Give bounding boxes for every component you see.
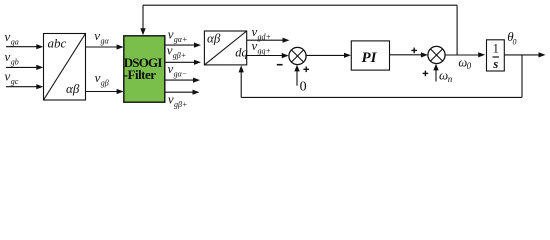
wire v_gd+ [247, 39, 283, 41]
svg-text:n: n [448, 74, 453, 84]
label minus at S1 [277, 64, 283, 66]
arrowhead v_gb [36, 65, 43, 70]
block integrator 1/s [487, 40, 505, 71]
wire input v_gc [6, 86, 38, 88]
wire v_gbeta [86, 91, 119, 93]
wire theta_0 output with feedback tap down [504, 54, 539, 56]
svg-text:s: s [492, 56, 498, 71]
svg-text:v: v [168, 92, 174, 107]
arrowhead omega_n input [433, 64, 438, 71]
svg-text:αβ: αβ [66, 81, 80, 96]
block U3 alpha-beta to dq transform [204, 31, 246, 65]
summing junction S2 [428, 46, 445, 63]
svg-text:gq+: gq+ [258, 47, 271, 56]
svg-text:ω: ω [439, 67, 448, 82]
svg-text:gc: gc [11, 77, 19, 86]
svg-text:v: v [168, 61, 174, 76]
svg-text:gα: gα [101, 37, 110, 46]
arrowhead theta_0 output [539, 52, 546, 57]
wire feedback into DSOGI top [142, 5, 144, 29]
svg-text:0: 0 [513, 37, 517, 46]
svg-text:PI: PI [362, 50, 378, 66]
svg-text:v: v [94, 28, 100, 43]
arrowhead zero input [294, 65, 299, 72]
svg-text:0: 0 [467, 61, 472, 71]
arrowhead v_gbeta [117, 89, 124, 94]
svg-text:v: v [95, 70, 101, 85]
wire DSOGI out3 [165, 79, 194, 81]
wire DSOGI out2 [165, 61, 195, 63]
arrowhead DSOGI out4 [193, 90, 200, 95]
svg-text:gd+: gd+ [258, 33, 271, 42]
block PI controller [351, 41, 389, 70]
block U1 abc to alpha-beta transform [44, 34, 86, 101]
svg-text:v: v [5, 49, 11, 64]
wire zero input to S1 [296, 70, 298, 86]
svg-text:0: 0 [300, 79, 307, 94]
wire v_galpha [86, 46, 119, 48]
arrowhead v_gc [36, 84, 43, 89]
svg-text:dq: dq [235, 46, 248, 60]
arrowhead DSOGI out2 [194, 60, 201, 65]
svg-text:-Filter: -Filter [124, 67, 157, 82]
arrowhead v_galpha [117, 44, 124, 49]
svg-text:abc: abc [48, 36, 67, 51]
wire top feedback [143, 4, 457, 6]
svg-text:v: v [5, 29, 11, 44]
wire S1 to PI [306, 54, 345, 56]
svg-text:gβ: gβ [101, 79, 109, 88]
arrowhead DSOGI out1 [194, 43, 201, 48]
arrowhead S1 to PI [344, 53, 351, 58]
svg-text:v: v [168, 27, 174, 42]
svg-text:ga: ga [11, 37, 19, 46]
wire input v_gb [6, 66, 38, 68]
label plus above PI wire at S2 [411, 48, 417, 54]
svg-text:gα+: gα+ [174, 35, 188, 44]
wire DSOGI out1 [165, 44, 195, 46]
wire input v_ga [6, 46, 38, 48]
arrowhead v_gq+ [282, 53, 289, 58]
summing junction S1 [289, 47, 306, 64]
wire S2 to integrator with feedback tap up [445, 54, 478, 56]
arrowhead S2 to integrator [478, 52, 485, 57]
label plus at S1 [303, 67, 309, 73]
svg-text:v: v [5, 69, 11, 84]
block U2 DSOGI-Filter green [124, 36, 165, 102]
arrowhead PI to S2 [421, 52, 428, 57]
svg-text:gb: gb [11, 58, 19, 67]
svg-text:gβ+: gβ+ [173, 51, 186, 60]
arrowhead v_ga [36, 44, 43, 49]
svg-text:gβ+: gβ+ [174, 100, 187, 109]
wire PI to S2 [390, 54, 422, 56]
arrowhead DSOGI out3 [193, 78, 200, 83]
svg-text:1: 1 [493, 41, 499, 55]
wire v_gq+ [247, 55, 282, 57]
svg-text:αβ: αβ [207, 30, 221, 45]
wire bottom feedback [241, 96, 522, 98]
arrowhead bottom feedback into dq block [239, 65, 244, 72]
arrowhead v_gd+ [283, 38, 290, 43]
wire DSOGI out4 [165, 91, 193, 93]
wire omega_n input to S2 [435, 69, 437, 82]
svg-text:gα−: gα− [174, 70, 188, 79]
arrowhead feedback into DSOGI top [140, 28, 145, 35]
label plus below-left at S2 [423, 71, 429, 77]
